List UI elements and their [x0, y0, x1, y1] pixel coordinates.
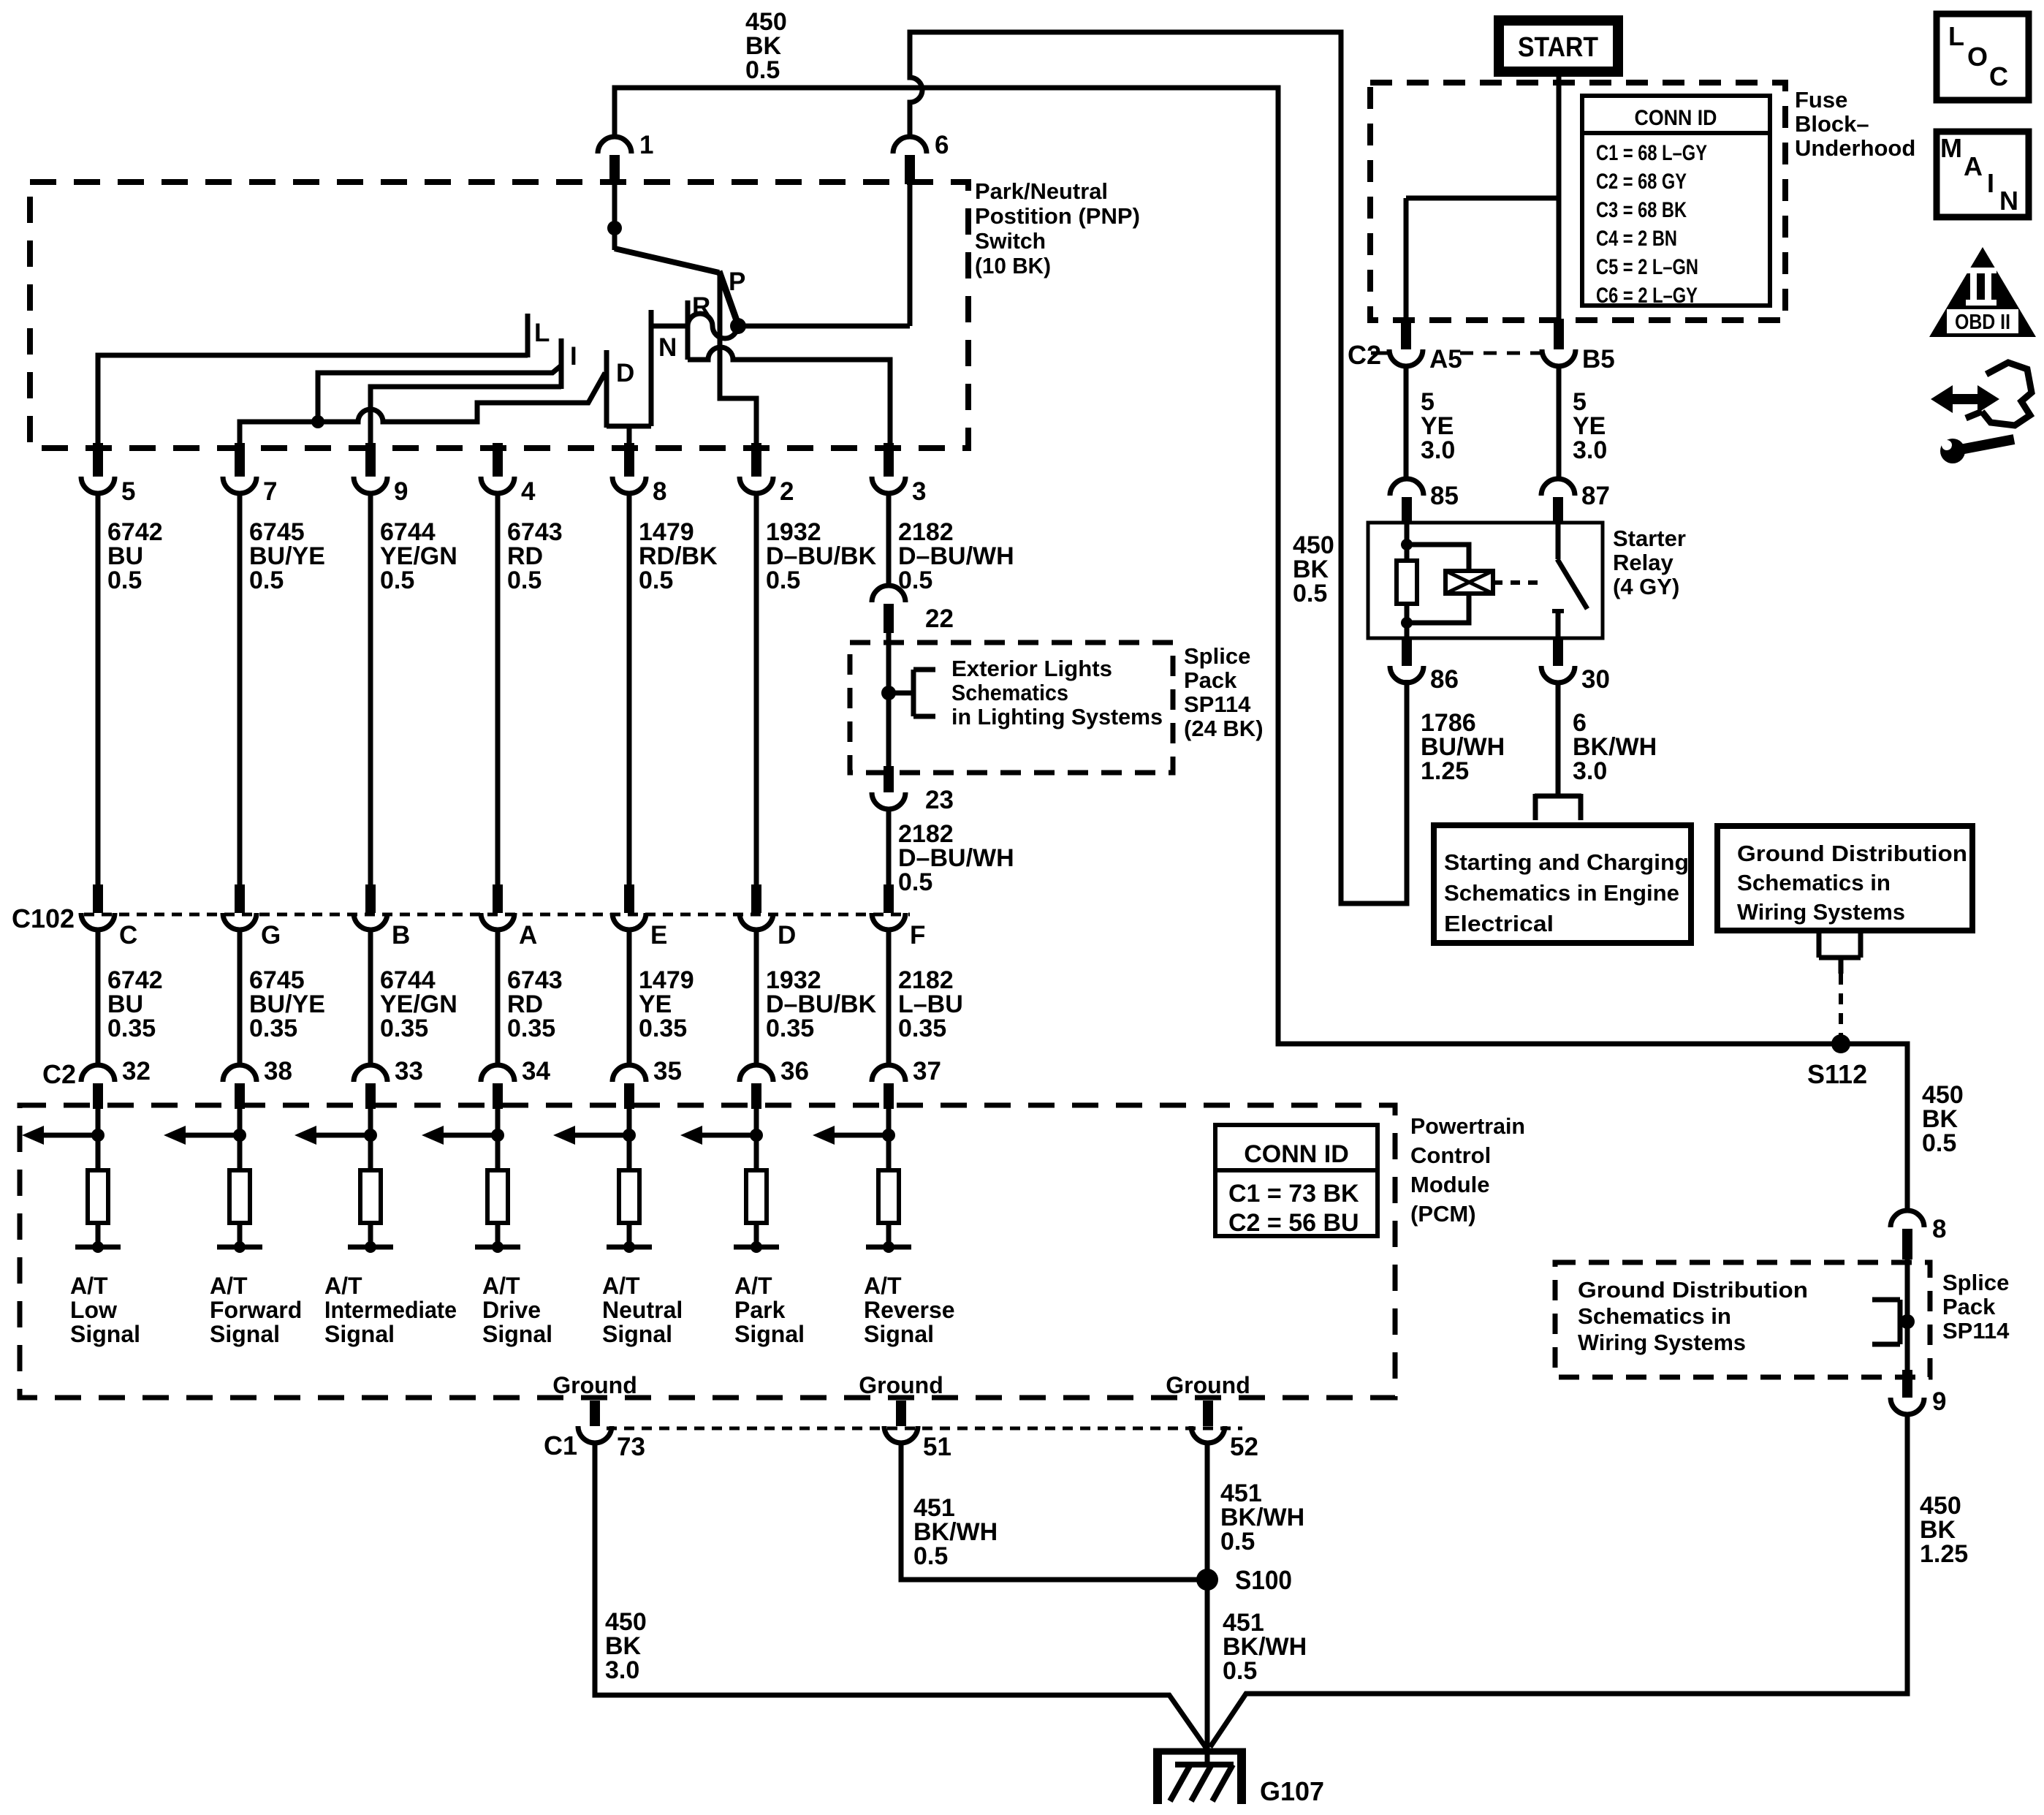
PCM common bar pin 33 [348, 1245, 393, 1250]
PCM common bar pin 36 [734, 1245, 779, 1250]
wire label 6742 BU 0.35 [107, 966, 163, 1042]
wire pin 6 into switch [908, 183, 913, 326]
splice S100 [1196, 1569, 1218, 1591]
PCM pull-up resistor pin 38 [229, 1170, 250, 1223]
wire pin 9 to contact I [371, 387, 561, 444]
label C1 (PCM connector) [544, 1431, 577, 1460]
fuse block dashed box [1370, 83, 1785, 320]
svg-text:A/T: A/T [70, 1273, 108, 1299]
svg-text:OBD II: OBD II [1955, 311, 2010, 334]
svg-text:F: F [910, 921, 925, 950]
PCM pull-up resistor pin 33 [360, 1170, 381, 1223]
svg-text:6: 6 [935, 131, 949, 159]
wire resistor to common pin 33 [368, 1223, 373, 1247]
svg-text:Park: Park [734, 1297, 786, 1323]
PCM internal arrow pin 38 [164, 1126, 240, 1145]
contact L stem [525, 314, 531, 357]
connector SP114 pin 8 [1891, 1210, 1946, 1259]
svg-text:85: 85 [1430, 482, 1459, 510]
svg-text:CONN ID: CONN ID [1244, 1140, 1349, 1168]
connector C1 pin 73 [578, 1401, 645, 1461]
wire C2-36 into PCM [754, 1107, 759, 1170]
PCM internal arrow pin 37 [813, 1126, 889, 1145]
svg-text:0.5: 0.5 [1223, 1657, 1257, 1685]
svg-text:36: 36 [780, 1057, 809, 1085]
wire circuit 6742 from pin 5 to C102 [96, 493, 101, 896]
svg-text:3: 3 [912, 477, 926, 506]
svg-text:C2: C2 [1348, 340, 1381, 370]
PCM common bar pin 35 [607, 1245, 652, 1250]
wire A5 to relay 85 [1404, 365, 1409, 480]
svg-text:(4 GY): (4 GY) [1613, 574, 1679, 599]
PCM pull-up resistor pin 37 [878, 1170, 899, 1223]
svg-text:N: N [658, 333, 677, 362]
wire resistor to common pin 35 [627, 1223, 632, 1247]
svg-text:C6 = 2 L–GY: C6 = 2 L–GY [1596, 284, 1698, 308]
svg-text:C: C [119, 921, 137, 950]
connector C2 pin 33 [354, 1057, 423, 1109]
svg-text:Signal: Signal [602, 1321, 672, 1347]
Ground Distribution box (top) [1717, 826, 1972, 931]
svg-text:0.35: 0.35 [639, 1015, 687, 1042]
label Exterior Lights Schematics in Lighting Systems [951, 656, 1163, 730]
wrench icon [1940, 439, 2014, 463]
svg-text:Schematics in Engine: Schematics in Engine [1444, 880, 1679, 906]
svg-text:C2: C2 [42, 1059, 76, 1089]
label Ground (52) [1166, 1372, 1250, 1398]
connector pin A5 [1389, 319, 1462, 374]
wire circuit 6745 from pin 7 to C102 [238, 493, 243, 896]
wire C102-C to C2 [96, 929, 101, 1067]
wire label 1786 BU/WH 1.25 [1421, 709, 1505, 785]
svg-text:Exterior Lights: Exterior Lights [951, 656, 1112, 681]
connector C102 pin C [81, 884, 137, 950]
connector C102 dashed line [84, 913, 910, 917]
diagnostic arrow icon [1931, 363, 2032, 425]
wire C2-38 into PCM [238, 1107, 243, 1170]
fuse block CONN ID table [1582, 96, 1770, 308]
connector pin 23 [872, 766, 954, 814]
svg-text:Underhood: Underhood [1795, 135, 1915, 161]
wire 451 BK/WH from S100 to G107 [1205, 1580, 1210, 1763]
connector pin B5 [1542, 319, 1615, 374]
wire pin 1 to wiper pivot [612, 183, 618, 250]
svg-text:35: 35 [653, 1057, 682, 1085]
wire label 6745 BU/YE 0.5 [249, 518, 325, 594]
PCM CONN ID table [1215, 1125, 1378, 1237]
svg-text:9: 9 [1932, 1387, 1946, 1416]
wire circuit 1932 from pin 2 to C102 [754, 493, 759, 896]
svg-text:0.5: 0.5 [639, 567, 673, 594]
svg-text:0.5: 0.5 [1293, 580, 1327, 607]
connector pin 5 [81, 443, 135, 506]
node on common bar pin 38 [234, 1241, 246, 1253]
svg-text:87: 87 [1581, 482, 1610, 510]
svg-text:E: E [650, 921, 667, 950]
starter relay box [1368, 523, 1603, 638]
svg-text:L: L [534, 319, 550, 347]
connector pin 30 [1541, 637, 1610, 694]
svg-text:Intermediate: Intermediate [324, 1297, 457, 1323]
svg-text:A/T: A/T [482, 1273, 520, 1299]
svg-text:A/T: A/T [734, 1273, 772, 1299]
connector C2 dashed line (fuse block) [1371, 352, 1540, 355]
wire label 6 BK/WH 3.0 [1573, 709, 1657, 785]
wire label 2182 D–BU/WH 0.5 [898, 518, 1014, 594]
svg-text:C1 = 68 L–GY: C1 = 68 L–GY [1596, 141, 1707, 165]
svg-text:1.25: 1.25 [1421, 757, 1469, 785]
PCM pull-up resistor pin 34 [487, 1170, 508, 1223]
connector pin 2 [740, 443, 794, 506]
svg-text:P: P [729, 268, 745, 296]
junction node pin 35 [623, 1129, 636, 1142]
svg-text:3.0: 3.0 [1573, 757, 1607, 785]
wire label 2182 L–BU 0.35 [898, 966, 963, 1042]
wire relay 30 to starting schematics [1556, 682, 1561, 796]
wire label 2182 D-BU/WH 0.5 (lower) [898, 820, 1014, 896]
wire label 450 BK 1.25 [1920, 1492, 1968, 1568]
wire pin 5 to contact L [98, 355, 528, 444]
svg-text:32: 32 [122, 1057, 151, 1085]
svg-text:Ground: Ground [552, 1372, 637, 1398]
connector C2 pin 36 [740, 1057, 809, 1109]
svg-text:Module: Module [1410, 1172, 1490, 1197]
svg-text:Reverse: Reverse [864, 1297, 955, 1323]
svg-text:38: 38 [264, 1057, 292, 1085]
relay node bottom [1401, 617, 1413, 629]
off-page fork (ground distribution) [1819, 931, 1861, 974]
wire START into fuse block [1406, 77, 1559, 320]
svg-text:Wiring Systems: Wiring Systems [1578, 1330, 1746, 1355]
connector C102 pin F [872, 884, 925, 950]
svg-text:A/T: A/T [324, 1273, 362, 1299]
label C2 (PCM connector) [42, 1059, 76, 1089]
svg-text:Signal: Signal [70, 1321, 140, 1347]
node on common bar pin 34 [492, 1241, 504, 1253]
wire label 451 BK/WH 0.5 (pin 52) [1220, 1479, 1304, 1556]
node on common bar pin 35 [623, 1241, 635, 1253]
contact I stem [559, 338, 564, 389]
svg-text:C1 = 73 BK: C1 = 73 BK [1228, 1180, 1359, 1208]
svg-text:Neutral: Neutral [602, 1297, 683, 1323]
label A/T Park Signal [734, 1273, 805, 1347]
svg-text:L: L [1948, 21, 1964, 51]
relay coil resistor [1397, 561, 1417, 604]
svg-text:73: 73 [617, 1433, 645, 1461]
svg-text:M: M [1940, 133, 1962, 163]
wire label 1932 D–BU/BK 0.35 [766, 966, 877, 1042]
label S100 [1235, 1565, 1292, 1595]
wire pin 7 to contact D (hop over pin 9 wire) [240, 373, 605, 444]
connector C2 pin 32 [81, 1057, 151, 1109]
wire label 6743 RD 0.35 [507, 966, 563, 1042]
label Ground (51) [859, 1372, 943, 1398]
junction node pin 37 [882, 1129, 895, 1142]
connector pin 87 [1541, 479, 1610, 524]
svg-text:Signal: Signal [210, 1321, 280, 1347]
wire B5 to relay 87 [1557, 365, 1562, 480]
wiper arm [615, 249, 719, 273]
wire 451 BK/WH from pin 52 to S100 [1205, 1442, 1210, 1580]
contact P dot [730, 318, 746, 334]
junction node pin 38 [233, 1129, 246, 1142]
connector C2 pin 34 [481, 1057, 550, 1109]
OBD II icon [1929, 247, 2036, 337]
PCM internal arrow pin 36 [680, 1126, 756, 1145]
wire 450 BK from PNP pin 1 to splice S112 and splice pack SP114 pin 8 [615, 88, 1907, 1212]
svg-text:SP114: SP114 [1942, 1318, 2010, 1344]
svg-text:22: 22 [925, 605, 954, 633]
SP114 reference bracket [1872, 1300, 1907, 1344]
wire label 451 BK/WH 0.5 (pin 51) [913, 1494, 998, 1570]
wire label 6743 RD 0.5 [507, 518, 563, 594]
wire C102-G to C2 [238, 929, 243, 1067]
connector SP114 pin 9 [1891, 1370, 1946, 1416]
dashed wire to S112 [1839, 974, 1843, 1041]
label Ground (73) [552, 1372, 637, 1398]
PCM pull-up resistor pin 32 [88, 1170, 108, 1223]
PCM common bar pin 38 [217, 1245, 262, 1250]
svg-text:(24 BK): (24 BK) [1184, 716, 1264, 741]
svg-text:Wiring Systems: Wiring Systems [1737, 899, 1905, 925]
label A/T Drive Signal [482, 1273, 552, 1347]
wire contact N / D bottom to pin 8 [607, 426, 651, 444]
splice pack SP114 dashed box [1555, 1262, 1930, 1377]
label A/T Neutral Signal [602, 1273, 683, 1347]
connector pin 9 [354, 443, 408, 506]
svg-text:A: A [519, 921, 537, 950]
svg-text:C2 = 56 BU: C2 = 56 BU [1228, 1209, 1359, 1237]
contact R stem [685, 300, 691, 360]
svg-text:D: D [778, 921, 796, 950]
connector C1 pin 51 [884, 1401, 951, 1461]
label I [570, 342, 577, 371]
relay switch [1552, 524, 1587, 637]
svg-text:0.35: 0.35 [107, 1015, 156, 1042]
wire resistor to common pin 38 [238, 1223, 243, 1247]
svg-text:Low: Low [70, 1297, 117, 1323]
ground G107 symbol [1153, 1748, 1246, 1804]
svg-text:23: 23 [925, 786, 954, 814]
svg-text:Switch: Switch [975, 228, 1046, 254]
relay coil symbol [1445, 571, 1493, 594]
svg-text:(PCM): (PCM) [1410, 1201, 1476, 1227]
wire circuit 6744 from pin 9 to C102 [368, 493, 373, 896]
wire C102-F to C2 [886, 929, 892, 1067]
svg-text:34: 34 [522, 1057, 550, 1085]
svg-text:O: O [1967, 42, 1988, 72]
wire resistor to common pin 36 [754, 1223, 759, 1247]
wire label 1932 D–BU/BK 0.5 [766, 518, 877, 594]
wire C102-D to C2 [754, 929, 759, 1067]
contact D stem [604, 350, 609, 428]
svg-text:Signal: Signal [482, 1321, 552, 1347]
label Fuse Block- Underhood [1795, 87, 1915, 161]
PNP switch dashed box [30, 182, 968, 448]
MAIN icon [1937, 132, 2029, 217]
wire C2-34 into PCM [495, 1107, 501, 1170]
svg-text:37: 37 [913, 1057, 941, 1085]
svg-text:I: I [1987, 168, 1994, 198]
label A/T Intermediate Signal [324, 1273, 457, 1347]
wire label 1479 RD/BK 0.5 [639, 518, 718, 594]
svg-text:3.0: 3.0 [1573, 436, 1607, 464]
junction node pin 33 [364, 1129, 377, 1142]
svg-text:Relay: Relay [1613, 550, 1673, 575]
svg-text:A5: A5 [1429, 345, 1462, 374]
contact N stem [649, 310, 654, 426]
connector pin 4 [481, 443, 536, 506]
svg-text:SP114: SP114 [1184, 691, 1251, 717]
START box [1499, 20, 1618, 72]
wire circuit 1479 from pin 8 to C102 [627, 493, 632, 896]
wire wiper to pin 2 [720, 273, 756, 444]
svg-text:CONN ID: CONN ID [1635, 106, 1717, 130]
wire C102-B to C2 [368, 929, 373, 1067]
wire 450 BK 1.25 from SP114 pin 9 to G107 [1210, 1414, 1907, 1747]
label P [729, 268, 745, 296]
label Ground Distribution Schematics in Wiring Systems (SP114) [1578, 1277, 1808, 1355]
connector C1 dashed line [607, 1427, 1242, 1431]
label Park/Neutral Postition (PNP) Switch (10 BK) [975, 178, 1140, 278]
svg-text:Pack: Pack [1184, 667, 1237, 693]
label S112 [1807, 1059, 1867, 1089]
svg-text:B: B [392, 921, 410, 950]
connector pin 22 [872, 586, 954, 633]
label Powertrain Control Module (PCM) [1410, 1113, 1525, 1227]
svg-text:C: C [1989, 61, 2008, 91]
svg-text:Ground Distribution: Ground Distribution [1578, 1277, 1808, 1303]
svg-text:86: 86 [1430, 665, 1459, 694]
svg-text:START: START [1518, 32, 1598, 63]
wire pin 3 to connector 22 [886, 493, 892, 586]
svg-text:3.0: 3.0 [1421, 436, 1455, 464]
label D [616, 359, 634, 387]
svg-text:0.35: 0.35 [507, 1015, 555, 1042]
label R [692, 292, 710, 321]
wire label 6744 YE/GN 0.5 [380, 518, 457, 594]
svg-text:0.35: 0.35 [249, 1015, 297, 1042]
svg-text:Control: Control [1410, 1143, 1491, 1168]
PCM common bar pin 32 [75, 1245, 121, 1250]
svg-text:3.0: 3.0 [605, 1656, 639, 1684]
connector pin 85 [1390, 479, 1459, 524]
wire label 6745 BU/YE 0.35 [249, 966, 325, 1042]
svg-text:S100: S100 [1235, 1565, 1292, 1595]
wire label 5 YE 3.0 (A5) [1421, 388, 1455, 464]
svg-text:D: D [616, 359, 634, 387]
svg-text:1: 1 [639, 131, 653, 159]
label C102 [12, 903, 75, 933]
svg-text:8: 8 [1932, 1215, 1946, 1243]
svg-text:Splice: Splice [1942, 1270, 2009, 1295]
svg-text:G107: G107 [1260, 1776, 1324, 1806]
wire contact P / N to pin 6 (line with wave over R and wiper) [651, 314, 910, 338]
exterior lights splice dashed box [850, 643, 1173, 773]
svg-text:33: 33 [395, 1057, 423, 1085]
svg-text:0.5: 0.5 [1922, 1129, 1956, 1157]
svg-text:0.5: 0.5 [898, 868, 932, 896]
svg-text:0.5: 0.5 [107, 567, 142, 594]
svg-text:C5 = 2 L–GN: C5 = 2 L–GN [1596, 255, 1698, 279]
connector C102 pin D [740, 884, 796, 950]
svg-text:A: A [1964, 151, 1983, 181]
wire contact R to pin 3 (hop over wiper wire) [688, 347, 890, 444]
svg-text:2: 2 [780, 477, 794, 506]
svg-text:R: R [692, 292, 710, 321]
wire resistor to common pin 32 [96, 1223, 101, 1247]
wire C2-33 into PCM [368, 1107, 373, 1170]
svg-text:S112: S112 [1807, 1059, 1867, 1089]
svg-text:0.5: 0.5 [507, 567, 542, 594]
node on common bar pin 37 [883, 1241, 894, 1253]
relay coil branch wires [1407, 524, 1469, 637]
svg-text:Starter: Starter [1613, 526, 1686, 551]
PCM internal arrow pin 32 [22, 1126, 98, 1145]
connector pin 3 [872, 443, 926, 506]
wire through SP114 [1905, 1258, 1910, 1373]
splice reference bracket [889, 670, 935, 716]
connector pin 8 [612, 443, 666, 506]
svg-text:C1: C1 [544, 1431, 577, 1460]
connector C1 pin 52 [1191, 1401, 1258, 1461]
off-page fork (starting and charging) [1535, 794, 1581, 820]
PCM dashed box [20, 1105, 1395, 1398]
svg-text:I: I [570, 342, 577, 371]
svg-text:Fuse: Fuse [1795, 87, 1847, 113]
junction node on pin 1 wire [607, 221, 622, 235]
connector C2 pin 35 [612, 1057, 682, 1109]
wire circuit 6743 from pin 4 to C102 [495, 493, 501, 896]
svg-text:Starting and Charging: Starting and Charging [1444, 849, 1689, 875]
wire C102-E to C2 [627, 929, 632, 1067]
wire 450 BK 3.0 from pin 73 to G107 [595, 1442, 1207, 1748]
node on common bar pin 32 [92, 1241, 104, 1253]
PCM pull-up resistor pin 35 [619, 1170, 639, 1223]
svg-text:Ground: Ground [859, 1372, 943, 1398]
svg-text:7: 7 [263, 477, 277, 506]
svg-text:N: N [1999, 186, 2018, 216]
label Starter Relay (4 GY) [1613, 526, 1686, 599]
wire label 6742 BU 0.5 [107, 518, 163, 594]
svg-text:0.5: 0.5 [766, 567, 800, 594]
svg-text:Signal: Signal [864, 1321, 934, 1347]
Starting and Charging box [1434, 825, 1691, 943]
connector C102 pin E [612, 884, 667, 950]
wire resistor to common pin 37 [886, 1223, 892, 1247]
svg-text:Schematics in: Schematics in [1737, 870, 1891, 895]
svg-text:A/T: A/T [210, 1273, 248, 1299]
connector pin 6 [893, 131, 949, 184]
svg-text:51: 51 [923, 1433, 951, 1461]
wire resistor to common pin 34 [495, 1223, 501, 1247]
svg-text:C3 = 68 BK: C3 = 68 BK [1596, 198, 1687, 222]
svg-text:Postition (PNP): Postition (PNP) [975, 203, 1140, 229]
relay node top [1401, 539, 1413, 550]
label A/T Reverse Signal [864, 1273, 955, 1347]
svg-text:0.5: 0.5 [913, 1542, 948, 1570]
connector C102 pin A [481, 884, 537, 950]
junction node pin 34 [491, 1129, 504, 1142]
connector pin 1 [598, 131, 653, 184]
label G107 [1260, 1776, 1324, 1806]
SP114 junction node [1900, 1314, 1915, 1329]
node on common bar pin 36 [751, 1241, 762, 1253]
wire from PNP pin 6 to starter relay pin 86 (with hop over 450 BK wire) [910, 32, 1407, 903]
label Splice Pack SP114 (24 BK) [1184, 643, 1264, 741]
wire C102-A to C2 [495, 929, 501, 1067]
wiper blade to contact P [719, 271, 738, 325]
